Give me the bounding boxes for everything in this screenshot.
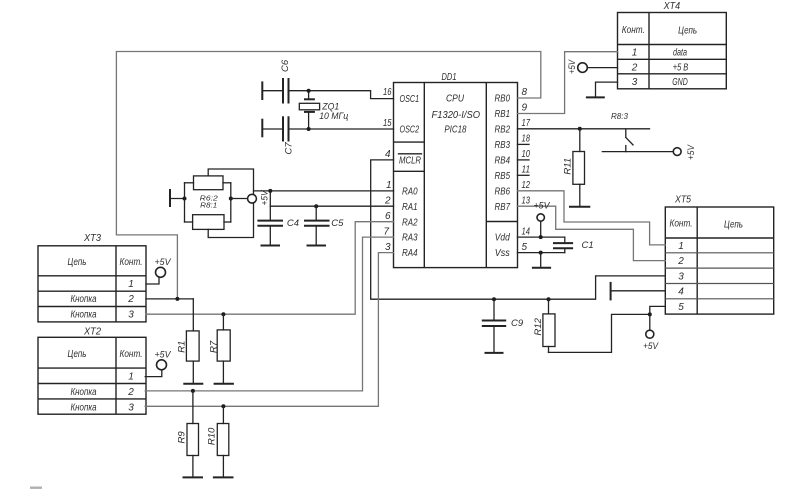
node RA4-R10 <box>221 404 225 408</box>
svg-text:RA3: RA3 <box>402 233 418 244</box>
svg-text:9: 9 <box>522 103 528 114</box>
svg-text:3: 3 <box>128 310 134 321</box>
resistor element R6:2 <box>194 176 224 190</box>
node Vss <box>539 251 543 255</box>
connector table XT4 <box>618 1 727 89</box>
svg-text:C6: C6 <box>280 59 291 72</box>
wire RB0 net <box>116 52 540 299</box>
svg-text:Цепь: Цепь <box>724 220 743 231</box>
svg-text:XT4: XT4 <box>663 1 681 12</box>
ground C4 <box>261 245 281 247</box>
svg-text:data: data <box>673 48 687 59</box>
svg-text:R8:3: R8:3 <box>611 112 629 121</box>
wire to left bus <box>170 198 185 200</box>
svg-text:PIC18: PIC18 <box>444 125 466 136</box>
svg-text:RB7: RB7 <box>495 202 511 213</box>
wire bottom tap loop <box>208 203 253 237</box>
node OSC1-ZQ1 <box>307 89 311 93</box>
ground R11 <box>569 206 590 208</box>
svg-text:11: 11 <box>522 165 531 176</box>
wire right bus <box>223 182 231 184</box>
contact plate XT5 pin4 <box>610 282 612 301</box>
+5V terminal at R6 <box>248 194 257 203</box>
resistor R12 <box>533 299 555 352</box>
wire RA2 net <box>146 222 394 315</box>
svg-text:RB4: RB4 <box>495 156 511 167</box>
+5V terminal XT4 <box>578 63 588 73</box>
node Vdd <box>539 235 543 239</box>
svg-text:4: 4 <box>385 149 391 160</box>
wire left bus <box>184 183 186 222</box>
svg-text:4: 4 <box>678 286 684 297</box>
capacitor C7 <box>262 116 294 154</box>
frame mark bottom left <box>30 487 42 489</box>
svg-text:5: 5 <box>522 242 528 253</box>
svg-text:6: 6 <box>385 211 391 222</box>
capacitor C1 <box>553 237 594 253</box>
ground Vss <box>532 267 551 269</box>
svg-text:13: 13 <box>522 195 531 206</box>
svg-text:+5V: +5V <box>567 59 578 74</box>
svg-text:C9: C9 <box>511 318 524 329</box>
capacitor C6 <box>262 59 291 103</box>
svg-text:RB3: RB3 <box>495 140 511 151</box>
svg-text:C1: C1 <box>582 240 594 251</box>
svg-text:C7: C7 <box>284 142 295 155</box>
+5V terminal Vdd <box>537 214 544 221</box>
svg-text:Цепь: Цепь <box>678 26 697 37</box>
svg-text:+5V: +5V <box>155 257 173 268</box>
wire Vss net <box>518 252 565 254</box>
wire data net RB1-XT4 <box>518 52 618 114</box>
wire +5V stub to Vdd <box>540 221 542 237</box>
svg-text:RB6: RB6 <box>495 186 511 197</box>
resistor assembly R6:2 / R8:1 <box>170 169 254 238</box>
pin 10 stub <box>518 159 530 161</box>
svg-text:DD1: DD1 <box>442 72 457 83</box>
svg-text:C5: C5 <box>331 218 344 229</box>
wire top tap loop <box>208 169 253 194</box>
svg-text:MCLR: MCLR <box>399 156 421 167</box>
svg-text:+5V: +5V <box>534 201 552 212</box>
resistor R9 <box>176 391 198 477</box>
wire XT5 pin4 <box>612 290 666 292</box>
node RA0 riser <box>268 189 272 193</box>
crystal ZQ1 <box>299 91 348 129</box>
svg-text:18: 18 <box>522 134 531 145</box>
svg-text:R8:1: R8:1 <box>200 201 217 210</box>
wire RB2 net <box>518 128 650 130</box>
switch R8:3 <box>602 112 673 151</box>
svg-text:F1320-I/SO: F1320-I/SO <box>432 110 481 121</box>
connector table XT2 <box>38 326 146 414</box>
wire RB6-XT5 net <box>518 191 666 245</box>
pin 18 stub <box>518 143 530 145</box>
wire MCLR net <box>371 160 666 299</box>
svg-text:+5V: +5V <box>686 144 697 160</box>
svg-text:14: 14 <box>522 226 531 237</box>
svg-text:RB1: RB1 <box>495 109 511 120</box>
connector table XT5 <box>665 195 773 315</box>
svg-text:OSC1: OSC1 <box>400 94 420 105</box>
svg-text:2: 2 <box>127 294 134 305</box>
svg-text:10 МГц: 10 МГц <box>319 111 349 122</box>
svg-text:5: 5 <box>678 302 684 313</box>
svg-text:CPU: CPU <box>446 94 465 105</box>
capacitor C4 <box>257 218 299 245</box>
svg-text:Кнопка: Кнопка <box>71 402 97 413</box>
svg-text:1: 1 <box>128 279 134 290</box>
svg-text:R12: R12 <box>533 317 544 335</box>
svg-text:RA4: RA4 <box>402 248 418 259</box>
node RA1-C5 <box>314 204 318 208</box>
wire +5V to XT4 pin2 <box>587 67 617 69</box>
+5V terminal at R8:3 <box>673 148 681 156</box>
wire XT2 pin1 to +5V <box>145 370 162 377</box>
capacitor C5 <box>304 206 344 244</box>
svg-text:1: 1 <box>128 372 134 383</box>
node RA2-R7 <box>221 312 225 316</box>
wire GND XT4 pin3 <box>596 82 618 97</box>
svg-text:Конт.: Конт. <box>120 349 143 360</box>
IC DD1 CPU PIC18 <box>394 72 518 268</box>
wire to +5V circle <box>231 198 248 200</box>
resistor R11 <box>563 129 585 206</box>
svg-text:Кнопка: Кнопка <box>71 310 97 321</box>
svg-text:1: 1 <box>632 48 638 59</box>
svg-text:R11: R11 <box>563 158 574 175</box>
wire RA0 net <box>254 190 394 192</box>
+5V terminal XT2 <box>157 360 167 370</box>
wire RB7-XT5 net <box>518 206 666 260</box>
svg-text:3: 3 <box>678 272 684 283</box>
svg-text:3: 3 <box>385 242 391 253</box>
svg-text:Конт.: Конт. <box>120 257 143 268</box>
+5V terminal XT3 <box>156 267 166 277</box>
node +5V branch <box>648 312 652 316</box>
svg-text:+5V: +5V <box>155 349 173 360</box>
resistor R1 <box>177 331 200 383</box>
wire RA4 net <box>145 253 393 407</box>
svg-text:Конт.: Конт. <box>622 25 645 36</box>
svg-text:RB0: RB0 <box>495 94 511 105</box>
node left bus <box>183 197 187 201</box>
node OSC2-ZQ1 <box>307 127 311 131</box>
wire +5V riser to C4 <box>269 191 271 221</box>
svg-text:RA1: RA1 <box>402 202 418 213</box>
connector table XT3 <box>38 233 146 322</box>
svg-text:1: 1 <box>386 180 392 191</box>
svg-text:Vss: Vss <box>495 248 510 259</box>
ground C5 <box>307 245 327 247</box>
svg-text:XT5: XT5 <box>674 195 691 206</box>
svg-text:10: 10 <box>522 149 531 160</box>
node MCLR-R12 <box>547 297 551 301</box>
svg-text:1: 1 <box>678 241 684 252</box>
pin 11 stub <box>518 174 530 176</box>
wire XT5 pin5 <box>650 306 666 330</box>
svg-text:R9: R9 <box>176 431 187 444</box>
resistor R10 <box>207 406 229 477</box>
svg-text:Vdd: Vdd <box>495 233 510 244</box>
svg-text:OSC2: OSC2 <box>400 125 420 136</box>
capacitor C9 <box>482 299 524 352</box>
svg-text:16: 16 <box>383 87 392 98</box>
svg-text:2: 2 <box>127 387 134 398</box>
svg-text:2: 2 <box>631 62 638 73</box>
svg-text:17: 17 <box>522 118 531 129</box>
ground R7 <box>214 383 234 385</box>
node RA3-R9 <box>191 389 195 393</box>
svg-text:RB5: RB5 <box>495 171 511 182</box>
svg-text:Конт.: Конт. <box>670 218 693 229</box>
ground R9 <box>183 476 204 478</box>
svg-text:3: 3 <box>632 77 638 88</box>
svg-text:3: 3 <box>128 402 134 413</box>
svg-text:RA0: RA0 <box>402 186 418 197</box>
svg-text:R7: R7 <box>208 340 219 353</box>
wire XT3 pin1 to +5V <box>146 277 159 284</box>
wire Vss to ground <box>540 253 542 267</box>
svg-text:15: 15 <box>383 118 392 129</box>
resistor R7 <box>208 314 230 383</box>
node MCLR-C9 <box>492 297 496 301</box>
svg-text:Кнопка: Кнопка <box>71 387 97 398</box>
svg-text:C4: C4 <box>287 218 299 229</box>
node XT3 pin2 riser <box>175 297 179 301</box>
ground XT4 <box>586 96 605 98</box>
svg-text:RA2: RA2 <box>402 217 418 228</box>
svg-text:XT2: XT2 <box>83 326 101 337</box>
contact plate terminal <box>169 189 171 207</box>
wire Vdd net <box>518 236 565 238</box>
pin numbers DD1 <box>383 87 530 253</box>
svg-text:+5V: +5V <box>643 341 659 352</box>
wire RA3 net <box>145 237 393 391</box>
wire R12 to +5V node <box>549 314 650 352</box>
ground R10 <box>213 476 234 478</box>
node RB2-R11 <box>578 127 582 131</box>
ground C9 <box>485 352 504 354</box>
resistor element R8:1 <box>193 215 224 230</box>
wire RA1 net <box>270 205 393 207</box>
svg-text:+5 В: +5 В <box>673 62 689 73</box>
svg-text:R1: R1 <box>177 341 188 353</box>
ground R1 <box>183 383 203 385</box>
svg-text:Кнопка: Кнопка <box>71 294 97 305</box>
svg-text:XT3: XT3 <box>83 233 101 244</box>
svg-text:R10: R10 <box>207 427 218 445</box>
svg-text:2: 2 <box>384 195 391 206</box>
wire OSC1 net <box>289 91 394 99</box>
wire XT3 pin2 (button) <box>146 298 193 300</box>
wire to R1 <box>192 299 194 331</box>
svg-text:Цепь: Цепь <box>68 257 87 268</box>
svg-text:GND: GND <box>672 77 688 88</box>
+5V terminal XT5 <box>646 330 654 338</box>
svg-text:RB2: RB2 <box>495 125 511 136</box>
node right bus <box>229 197 233 201</box>
svg-text:8: 8 <box>522 87 528 98</box>
svg-text:12: 12 <box>522 180 531 191</box>
wire OSC2 net <box>289 128 394 130</box>
svg-text:7: 7 <box>383 226 389 237</box>
svg-text:2: 2 <box>677 256 684 267</box>
svg-text:Цепь: Цепь <box>68 349 87 360</box>
